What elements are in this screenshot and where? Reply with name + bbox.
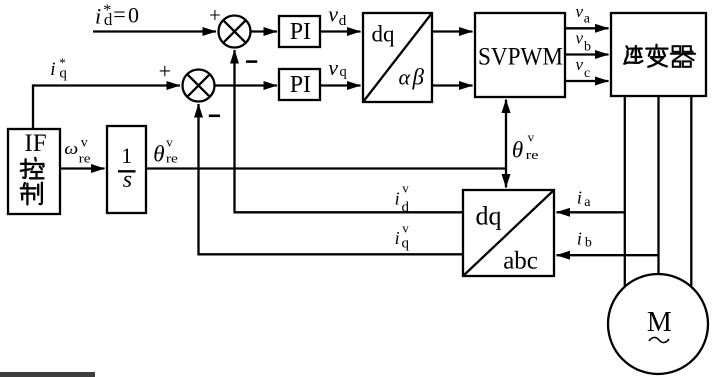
svg-text:re: re	[526, 147, 539, 162]
minus sign at summing junction 2	[209, 115, 220, 118]
PI controller 2	[279, 69, 320, 100]
svg-text:SVPWM: SVPWM	[478, 44, 563, 71]
dq/alphabeta transform block	[363, 13, 432, 102]
minus sign at summing junction 1	[246, 60, 257, 63]
phase wire b from inverter to motor	[657, 96, 659, 275]
phase wire c from inverter to motor	[690, 96, 692, 287]
PI controller 1	[279, 16, 320, 47]
svg-text:b: b	[584, 40, 591, 55]
svg-text:q: q	[340, 64, 347, 80]
label vc	[576, 55, 591, 81]
svg-text:i: i	[95, 3, 101, 28]
wire PI1 to dq block	[320, 30, 361, 32]
wire id* input to summing junction 1	[93, 30, 216, 32]
svg-text:PI: PI	[290, 19, 311, 45]
svg-text:+: +	[209, 3, 221, 27]
wire theta vertical arrow down into dq/abc	[505, 169, 507, 188]
hanzi BIAN of inverter	[646, 45, 667, 67]
svg-text:d: d	[104, 10, 113, 29]
svg-text:=: =	[113, 2, 125, 27]
hanzi KONG of IF control	[21, 158, 44, 178]
wire vc SVPWM to inverter	[565, 80, 609, 82]
label iq*	[50, 55, 67, 82]
svg-text:PI: PI	[290, 72, 311, 98]
label theta_re^v center	[512, 129, 539, 162]
wire dq block to SVPWM (top)	[432, 30, 473, 32]
label vd	[328, 2, 347, 29]
hanzi ZHI of IF control	[21, 183, 42, 205]
inverter block	[611, 13, 706, 96]
wire PI2 to dq block	[320, 84, 361, 86]
svg-text:b: b	[585, 236, 592, 251]
wire junction2 to PI2	[215, 84, 278, 86]
svg-text:+: +	[159, 59, 171, 84]
svg-text:v: v	[576, 28, 584, 47]
bottom-left scan artifact bar	[0, 372, 95, 377]
label iqv feedback	[395, 220, 410, 251]
label theta_re^v left	[153, 134, 178, 166]
svg-text:v: v	[166, 134, 173, 149]
hanzi QI of inverter	[671, 46, 695, 67]
label va	[576, 2, 591, 27]
svg-text:q: q	[402, 236, 410, 252]
wire dq block to SVPWM (bottom)	[432, 84, 473, 86]
svg-text:v: v	[81, 135, 88, 150]
svg-text:β: β	[412, 65, 425, 90]
wire iqv feedback from dq/abc to junction2	[199, 104, 464, 254]
svg-text:d: d	[339, 13, 347, 29]
svg-text:v: v	[402, 181, 409, 196]
svg-text:v: v	[576, 55, 584, 74]
svg-text:re: re	[79, 150, 91, 165]
svg-text:a: a	[584, 195, 591, 210]
wire idv feedback from dq/abc to junction1	[235, 50, 464, 212]
wire vb SVPWM to inverter	[565, 53, 609, 55]
svg-text:M: M	[647, 307, 672, 338]
svg-text:dq: dq	[476, 202, 502, 231]
svg-text:IF: IF	[24, 130, 46, 157]
svg-text:i: i	[577, 188, 582, 208]
svg-text:dq: dq	[372, 22, 396, 47]
wire theta from 1/s to center vertical	[146, 167, 506, 169]
label idv feedback	[395, 181, 410, 216]
svg-text:i: i	[395, 228, 400, 248]
svg-text:v: v	[576, 2, 584, 21]
wire junction1 to PI1	[251, 30, 278, 32]
svg-text:i: i	[395, 188, 400, 208]
svg-text:c: c	[584, 66, 590, 81]
label vq	[328, 55, 347, 80]
svg-text:v: v	[528, 129, 535, 144]
svg-text:θ: θ	[153, 142, 164, 167]
svg-text:s: s	[123, 167, 132, 193]
wire IF control to 1/s	[60, 167, 105, 169]
svg-text:v: v	[402, 220, 409, 235]
phase wire a from inverter to motor	[624, 96, 626, 287]
label ia	[577, 188, 591, 210]
wire ib from phase line b to dq/abc	[557, 254, 659, 256]
svg-text:θ: θ	[512, 138, 523, 163]
wire va SVPWM to inverter	[565, 27, 609, 29]
wire theta vertical arrow up into SVPWM	[505, 100, 507, 169]
label omega_re^v	[64, 135, 91, 165]
svg-text:v: v	[328, 55, 338, 80]
svg-text:v: v	[328, 2, 338, 27]
svg-text:abc: abc	[503, 248, 538, 275]
summing junction 1	[219, 16, 251, 48]
svg-text:q: q	[59, 65, 67, 81]
label vb	[576, 28, 592, 54]
svg-text:re: re	[166, 150, 178, 165]
svg-text:0: 0	[128, 2, 139, 27]
svg-text:1: 1	[121, 143, 132, 168]
label id*=0	[95, 2, 139, 29]
hanzi NI of inverter	[624, 46, 642, 64]
integrator 1/s block	[107, 126, 146, 213]
label ib	[577, 229, 592, 251]
wire ia from phase line a to dq/abc	[557, 211, 625, 213]
wire iq* from IF block top to summing junction 2	[33, 86, 180, 130]
summing junction 2	[183, 70, 215, 102]
motor M	[608, 274, 708, 374]
IF control block	[8, 129, 60, 214]
svg-text:i: i	[50, 59, 55, 80]
svg-text:i: i	[577, 229, 582, 249]
dq/abc transform block	[463, 190, 554, 276]
SVPWM block	[475, 13, 565, 97]
svg-text:α: α	[399, 65, 411, 90]
svg-text:a: a	[584, 12, 591, 27]
svg-text:ω: ω	[64, 139, 78, 158]
